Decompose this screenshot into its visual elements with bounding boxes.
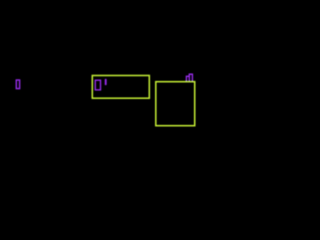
chartreuse square (right) <box>156 82 195 126</box>
purple rectangle inside middle box <box>95 80 100 90</box>
purple step shape on top of right square <box>186 74 192 82</box>
small purple rectangle (left) <box>16 80 19 89</box>
large chartreuse rectangle (middle) <box>92 76 149 99</box>
purple tick mark inside middle box <box>105 79 107 85</box>
